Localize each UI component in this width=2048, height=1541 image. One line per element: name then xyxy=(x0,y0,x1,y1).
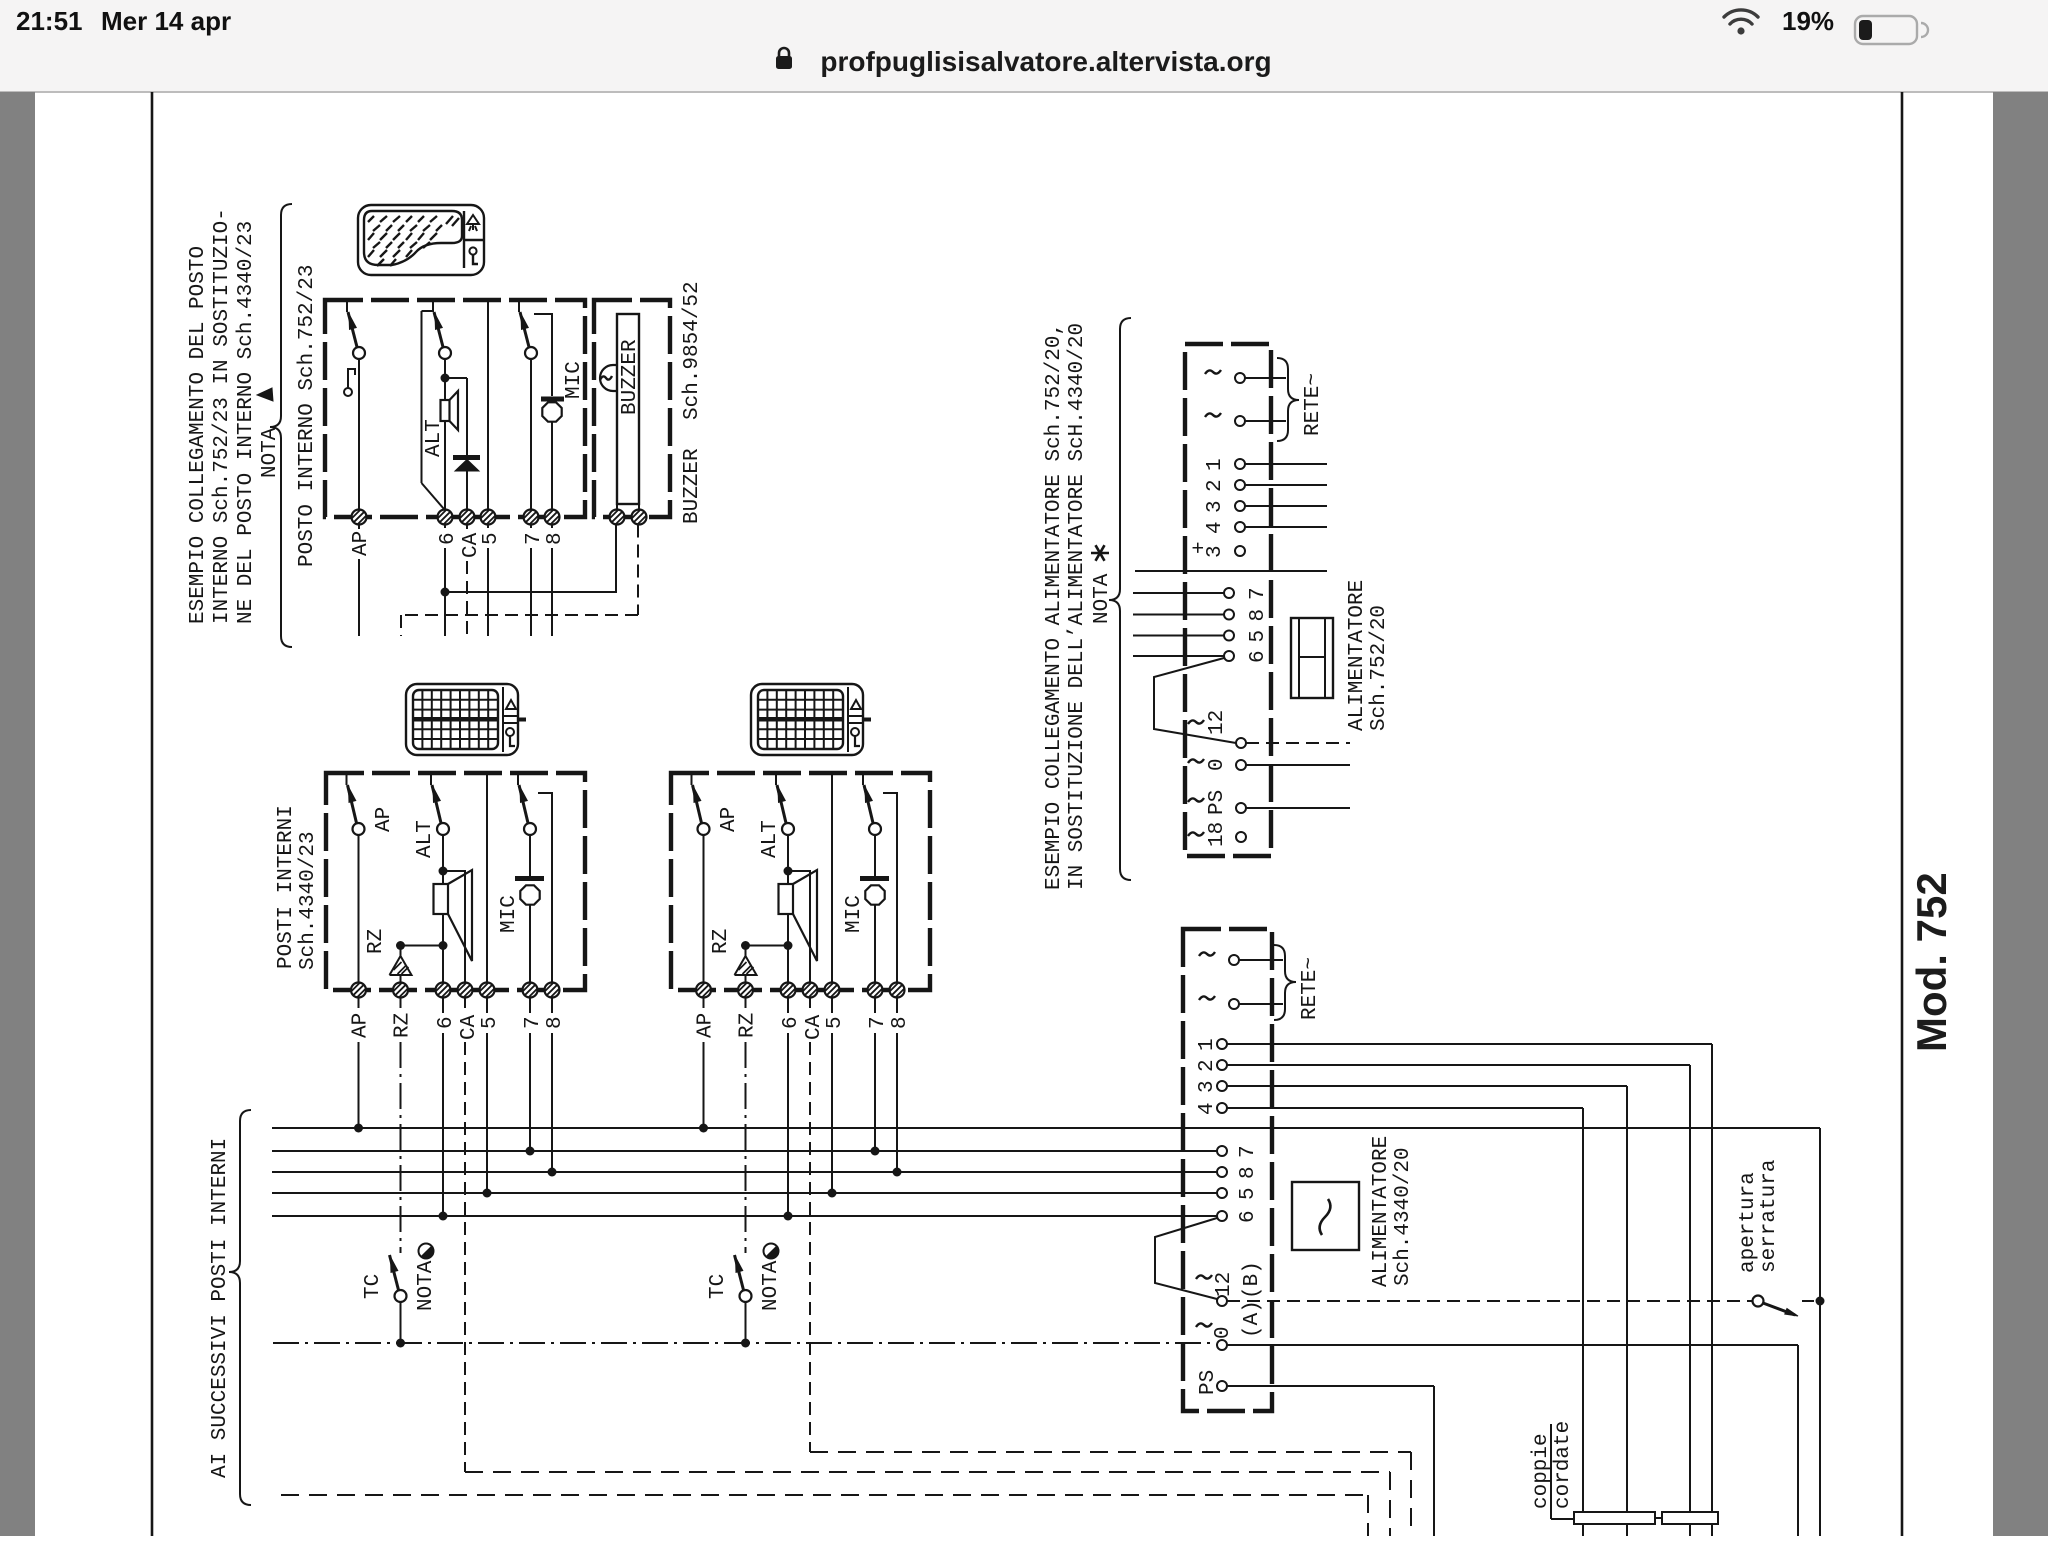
svg-text:MIC: MIC xyxy=(498,895,521,933)
terminal 7 unit 1 xyxy=(523,983,538,998)
svg-text:ALT: ALT xyxy=(759,820,782,858)
svg-text:5: 5 xyxy=(824,1016,847,1029)
svg-text:7: 7 xyxy=(1247,587,1270,600)
svg-text:ALIMENTATORE: ALIMENTATORE xyxy=(1370,1136,1393,1287)
terminal 12 (4340/20) xyxy=(1217,1296,1227,1306)
svg-text:cordate: cordate xyxy=(1552,1421,1575,1509)
dashed box buzzer 9854/52 xyxy=(594,300,670,517)
svg-text:2: 2 xyxy=(1196,1059,1219,1072)
hook switch AP unit 2 xyxy=(691,773,693,785)
pivot wire to terminal 6 xyxy=(422,310,433,312)
svg-text:Sch.9854/52: Sch.9854/52 xyxy=(681,281,704,420)
terminal 5 (4340/20) xyxy=(1217,1188,1227,1198)
terminal 0 (752/20) xyxy=(1236,760,1246,770)
twisted pair symbol 1 xyxy=(1574,1512,1655,1524)
svg-text:8: 8 xyxy=(544,532,567,545)
brace RETE (752/20) xyxy=(1277,358,1299,441)
svg-text:8: 8 xyxy=(1247,609,1270,622)
wire 8 to bus unit 2 xyxy=(896,997,898,1013)
wire speaker-down unit 2 xyxy=(787,914,789,942)
svg-text:serratura: serratura xyxy=(1758,1160,1781,1273)
svg-text:TC: TC xyxy=(707,1274,730,1299)
mic elbow wire xyxy=(534,314,552,396)
wire switch to node xyxy=(444,359,446,375)
svg-text:INTERNO Sch.752/23 IN SOSTITUZ: INTERNO Sch.752/23 IN SOSTITUZIO- xyxy=(211,208,234,624)
riser wire 2 xyxy=(1227,1064,1690,1066)
wire switch-node unit 1 xyxy=(442,835,444,868)
svg-text:5: 5 xyxy=(1247,630,1270,643)
terminal 2 (752/20) xyxy=(1235,480,1245,490)
terminal 7 (posto interno) xyxy=(524,510,539,525)
svg-text:BUZZER: BUZZER xyxy=(619,339,642,415)
svg-text:CA: CA xyxy=(803,1014,826,1040)
terminal RZ unit 1 xyxy=(393,983,408,998)
svg-text:6: 6 xyxy=(435,1016,458,1029)
wire 5 to bus unit 2 xyxy=(831,997,833,1013)
NOTA dot marker unit 1 xyxy=(419,1244,434,1259)
ringer RZ symbol unit 2 xyxy=(735,956,757,975)
wire 8 to bus unit 1 xyxy=(551,997,553,1013)
svg-text:coppie: coppie xyxy=(1530,1433,1553,1509)
svg-text:1: 1 xyxy=(1196,1038,1219,1051)
junction node RZ/6 unit 1 xyxy=(439,941,448,950)
switch TC unit 1 xyxy=(390,1255,399,1290)
svg-text:TC: TC xyxy=(362,1274,385,1299)
svg-text:5: 5 xyxy=(480,532,503,545)
buzzer terminal 2 xyxy=(632,510,647,525)
svg-text:3: 3 xyxy=(1204,545,1227,558)
svg-text:AP: AP xyxy=(695,1013,718,1038)
junction dot TC bus unit 2 xyxy=(741,1339,750,1348)
wire + line (752/20) xyxy=(1135,570,1327,572)
wire CA unit 1 dashed run xyxy=(464,1042,466,1472)
successive CA dashed line xyxy=(281,1494,1368,1496)
svg-text:3: 3 xyxy=(1204,500,1227,513)
dashed box posto interno unit 1 xyxy=(326,773,585,990)
svg-text:ALIMENTATORE: ALIMENTATORE xyxy=(1346,580,1369,731)
wire mic-terminal7 unit 1 xyxy=(529,905,531,983)
jumper 6-12 (752/20) xyxy=(1154,658,1236,743)
wire 8 below xyxy=(551,525,553,529)
diode branch wire xyxy=(445,377,467,379)
jumper 6-12 (4340/20) xyxy=(1155,1218,1217,1299)
svg-text:(A): (A) xyxy=(1241,1300,1264,1338)
twisted pair connector xyxy=(1655,1517,1662,1519)
address bar lock icon xyxy=(776,56,792,69)
svg-text:NOTA: NOTA xyxy=(760,1260,783,1311)
wifi icon xyxy=(1724,10,1758,24)
wire 5 unit 1 xyxy=(486,773,488,983)
hook switch ALT unit 2 xyxy=(775,773,777,785)
terminal 7 unit 2 xyxy=(868,983,883,998)
svg-text:AI SUCCESSIVI POSTI INTERNI: AI SUCCESSIVI POSTI INTERNI xyxy=(209,1138,232,1478)
wire AP unit 1 xyxy=(358,835,360,983)
left gray margin band xyxy=(0,92,35,1536)
wire 7 to bus unit 1 xyxy=(529,997,531,1013)
wire 6 to bus unit 2 xyxy=(787,997,789,1013)
junction node RZ/6 unit 2 xyxy=(784,941,793,950)
terminal CA unit 1 xyxy=(458,983,473,998)
svg-text:19%: 19% xyxy=(1782,6,1834,36)
svg-text:ALT: ALT xyxy=(414,820,437,858)
bus line 6 xyxy=(272,1215,1217,1217)
bus line 7 xyxy=(272,1150,1217,1152)
terminal ~ b (4340/20) xyxy=(1229,999,1239,1009)
svg-text:5: 5 xyxy=(1237,1187,1260,1200)
terminal 8 (posto interno) xyxy=(545,510,560,525)
svg-text:5: 5 xyxy=(479,1016,502,1029)
apertura serratura switch xyxy=(1753,1296,1764,1307)
svg-text:NOTA: NOTA xyxy=(1091,573,1114,624)
terminal 6 unit 1 xyxy=(436,983,451,998)
svg-text:8: 8 xyxy=(1237,1166,1260,1179)
terminal 8 (4340/20) xyxy=(1217,1167,1227,1177)
svg-text:PS: PS xyxy=(1206,790,1229,815)
wire 7 to bus unit 2 xyxy=(874,997,876,1013)
speaker ALT (posto interno) xyxy=(444,378,446,400)
svg-text:18: 18 xyxy=(1206,822,1229,847)
section B brace xyxy=(1109,318,1131,880)
wire CA unit 2 dashed run xyxy=(809,1042,811,1452)
svg-text:Mod. 752: Mod. 752 xyxy=(1908,872,1955,1052)
terminal 6 (752/20) xyxy=(1224,651,1234,661)
switch TC unit 2 xyxy=(735,1255,744,1290)
svg-text:POSTI INTERNI: POSTI INTERNI xyxy=(275,805,298,969)
svg-text:NE DEL POSTO INTERNO Sch.4340/: NE DEL POSTO INTERNO Sch.4340/23 xyxy=(235,221,258,624)
junction node 6/CA unit 1 xyxy=(439,867,448,876)
terminal 8 (752/20) xyxy=(1224,610,1234,620)
wire CA dashed unit 2 xyxy=(809,997,811,1008)
buzzer dashed return wire xyxy=(637,525,639,616)
wire switch to terminal 7 xyxy=(530,359,532,510)
terminal 0 (4340/20) xyxy=(1217,1340,1227,1350)
terminal AP unit 1 xyxy=(351,983,366,998)
svg-text:POSTO INTERNO Sch.752/23: POSTO INTERNO Sch.752/23 xyxy=(296,265,319,567)
terminal ~ a (752/20) xyxy=(1235,373,1245,383)
terminal 18 (752/20) xyxy=(1236,832,1246,842)
wire 5 below xyxy=(487,525,489,529)
twisted pair symbol 2 xyxy=(1662,1512,1718,1524)
section A brace xyxy=(270,204,292,647)
svg-text:RZ: RZ xyxy=(710,929,733,954)
hook switch MIC unit 2 xyxy=(862,773,864,785)
wire 5 to bus unit 1 xyxy=(486,997,488,1013)
riser wire 1 xyxy=(1227,1043,1712,1045)
svg-text:PS: PS xyxy=(1197,1370,1220,1395)
svg-text:AP: AP xyxy=(350,1013,373,1038)
terminal 6 unit 2 xyxy=(781,983,796,998)
terminal 5 (posto interno) xyxy=(481,510,496,525)
wire speaker-down unit 1 xyxy=(442,914,444,942)
svg-text:6: 6 xyxy=(1237,1210,1260,1223)
junction dot serratura xyxy=(1816,1297,1825,1306)
diode (posto interno) xyxy=(453,455,480,460)
wire 0 riser xyxy=(1227,1344,1798,1346)
svg-text:7: 7 xyxy=(523,532,546,545)
dashed box posto interno unit 2 xyxy=(671,773,930,990)
svg-text:Sch.4340/23: Sch.4340/23 xyxy=(297,831,320,970)
dashed box posto interno 752/23 xyxy=(325,300,585,517)
terminal 5 (752/20) xyxy=(1224,631,1234,641)
svg-text:7: 7 xyxy=(1237,1145,1260,1158)
alimentatore 4340/20 component xyxy=(1292,1182,1359,1250)
terminal ~ b (752/20) xyxy=(1235,416,1245,426)
status bar background xyxy=(0,0,2048,92)
terminal CA unit 2 xyxy=(803,983,818,998)
brace AI SUCCESSIVI xyxy=(229,1110,251,1505)
svg-text:RZ: RZ xyxy=(392,1013,415,1038)
hook switch AP unit 1 xyxy=(346,773,348,785)
wire CA branch unit 1 xyxy=(443,871,465,983)
wire AP to bus unit 2 xyxy=(703,997,705,1008)
wire AP switch to terminal xyxy=(358,359,360,510)
key-call symbol xyxy=(347,368,349,388)
terminal 5 unit 2 xyxy=(825,983,840,998)
hook switch AP (posto interno) xyxy=(346,300,348,312)
svg-text:Mer 14 apr: Mer 14 apr xyxy=(101,6,231,36)
svg-text:7: 7 xyxy=(522,1016,545,1029)
speaker ALT unit 2 xyxy=(787,871,789,884)
terminal 4 (4340/20) xyxy=(1217,1103,1227,1113)
ringer RZ wire unit 1 xyxy=(401,945,444,947)
terminal 6 (4340/20) xyxy=(1217,1211,1227,1221)
brace RETE (4340/20) xyxy=(1274,945,1296,1020)
svg-text:(B): (B) xyxy=(1241,1261,1264,1299)
handset icon key cell xyxy=(469,247,476,254)
svg-text:AP: AP xyxy=(373,807,396,832)
svg-text:2: 2 xyxy=(1204,479,1227,492)
svg-text:RETE~: RETE~ xyxy=(1302,373,1325,436)
svg-text:ESEMPIO COLLEGAMENTO ALIMENTAT: ESEMPIO COLLEGAMENTO ALIMENTATORE Sch.75… xyxy=(1043,323,1066,890)
terminal AP unit 2 xyxy=(696,983,711,998)
riser wire 3 xyxy=(1227,1085,1627,1087)
wire AP unit 2 xyxy=(703,835,705,983)
wire 7 below xyxy=(530,525,532,529)
terminal 12 (752/20) xyxy=(1236,738,1246,748)
wire RZ dash-dot to TC unit 2 xyxy=(745,997,747,1008)
handset icon posto interno unit 1 xyxy=(406,684,518,755)
terminal 8 unit 1 xyxy=(545,983,560,998)
wire 6 to bus unit 1 xyxy=(442,997,444,1013)
buzzer return wire solid xyxy=(445,524,616,592)
bus line TC dash-dot xyxy=(273,1342,1216,1344)
svg-text:AP: AP xyxy=(350,531,373,556)
svg-text:apertura: apertura xyxy=(1737,1172,1760,1273)
wire switch-node unit 2 xyxy=(787,835,789,868)
svg-text:6: 6 xyxy=(1247,650,1270,663)
wire RZ dash-dot to TC unit 1 xyxy=(400,997,402,1008)
svg-text:IN SOSTITUZIONE DELL’ALIMENTAT: IN SOSTITUZIONE DELL’ALIMENTATORE ScH.43… xyxy=(1066,323,1089,890)
handset icon posto interno 752/23 xyxy=(358,205,484,275)
wire 5 (posto interno) xyxy=(487,300,489,510)
terminal 3 (4340/20) xyxy=(1217,1081,1227,1091)
svg-text:4: 4 xyxy=(1196,1102,1219,1115)
schematic sheet left frame line xyxy=(151,92,154,1536)
svg-text:BUZZER: BUZZER xyxy=(681,448,704,524)
wire 8 unit 2 xyxy=(883,793,897,983)
svg-text:ALT: ALT xyxy=(423,419,446,457)
svg-text:ESEMPIO COLLEGAMENTO DEL POSTO: ESEMPIO COLLEGAMENTO DEL POSTO xyxy=(187,246,210,624)
handset icon posto interno unit 2 xyxy=(751,684,863,755)
hook switch MIC unit 1 xyxy=(517,773,519,785)
alimentatore 752/20 component xyxy=(1291,618,1333,698)
junction dot buzzer return xyxy=(441,588,450,597)
wire CA branch unit 2 xyxy=(788,871,810,983)
wire mic-terminal7 unit 2 xyxy=(874,905,876,983)
svg-text:CA: CA xyxy=(458,1014,481,1040)
terminal 3 (752/20) xyxy=(1235,501,1245,511)
junction node ALT xyxy=(441,374,450,383)
wire AP to bus unit 1 xyxy=(358,997,360,1008)
wire 5 unit 2 xyxy=(831,773,833,983)
wire speaker to terminal 6 xyxy=(444,421,446,510)
junction dot TC bus unit 1 xyxy=(396,1339,405,1348)
NOTA dot marker unit 2 xyxy=(764,1244,779,1259)
hook switch ALT unit 1 xyxy=(430,773,432,785)
schematic sheet right frame line xyxy=(1901,92,1904,1536)
buzzer terminal 1 xyxy=(610,510,625,525)
NOTA triangle marker xyxy=(257,388,273,401)
buzzer component xyxy=(617,314,639,504)
NOTA asterisk marker xyxy=(1091,545,1109,561)
svg-text:6: 6 xyxy=(780,1016,803,1029)
terminal 8 unit 2 xyxy=(890,983,905,998)
terminal 7 (752/20) xyxy=(1224,588,1234,598)
wire mic to terminal 8 xyxy=(551,422,553,510)
wire switch-mic unit 1 xyxy=(529,835,531,876)
hook switch ALT (posto interno) xyxy=(432,300,434,312)
terminal CA (posto interno) xyxy=(460,510,475,525)
svg-text:12: 12 xyxy=(1213,1272,1236,1297)
terminal 4 (752/20) xyxy=(1235,522,1245,532)
svg-text:12: 12 xyxy=(1206,710,1229,735)
dashed box alimentatore 4340/20 terminals xyxy=(1183,929,1272,1411)
svg-text:3: 3 xyxy=(1196,1080,1219,1093)
ringer RZ wire unit 2 xyxy=(746,945,789,947)
riser wire 4 xyxy=(1227,1107,1583,1109)
dashed box alimentatore 752/20 terminals xyxy=(1185,344,1271,856)
terminal 5 unit 1 xyxy=(480,983,495,998)
svg-text:6: 6 xyxy=(437,532,460,545)
bus line AP xyxy=(272,1127,1820,1129)
terminal AP (posto interno) xyxy=(352,510,367,525)
wire 8 unit 1 xyxy=(538,793,552,983)
speaker ALT unit 1 xyxy=(442,871,444,884)
svg-text:0: 0 xyxy=(1212,1326,1235,1339)
bus line 8 xyxy=(272,1171,1217,1173)
svg-text:RETE~: RETE~ xyxy=(1299,957,1322,1020)
svg-text:8: 8 xyxy=(544,1016,567,1029)
wire CA below dashed xyxy=(466,525,468,530)
handset icon arrow cell xyxy=(467,215,479,231)
wire PS riser xyxy=(1227,1385,1434,1387)
wire 6 below xyxy=(444,525,446,529)
svg-text:RZ: RZ xyxy=(737,1013,760,1038)
wire AP riser down xyxy=(1819,1128,1821,1536)
svg-text:21:51: 21:51 xyxy=(16,6,83,36)
svg-text:RZ: RZ xyxy=(365,929,388,954)
bus line 5 xyxy=(272,1192,1217,1194)
svg-text:8: 8 xyxy=(889,1016,912,1029)
svg-text:Sch.4340/20: Sch.4340/20 xyxy=(1392,1147,1415,1286)
svg-text:NOTA: NOTA xyxy=(415,1260,438,1311)
terminal +3 (752/20) xyxy=(1235,546,1245,556)
ringer RZ symbol unit 1 xyxy=(390,956,412,975)
svg-text:profpuglisisalvatore.altervist: profpuglisisalvatore.altervista.org xyxy=(820,46,1271,77)
terminal 1 (4340/20) xyxy=(1217,1039,1227,1049)
terminal 2 (4340/20) xyxy=(1217,1060,1227,1070)
terminal 6 (posto interno) xyxy=(438,510,453,525)
svg-text:4: 4 xyxy=(1204,521,1227,534)
svg-text:1: 1 xyxy=(1204,458,1227,471)
terminal PS (752/20) xyxy=(1236,803,1246,813)
svg-text:0: 0 xyxy=(1206,758,1229,771)
terminal 1 (752/20) xyxy=(1235,459,1245,469)
junction node 6/CA unit 2 xyxy=(784,867,793,876)
buzzer wires to terminals xyxy=(616,504,618,510)
terminal RZ unit 2 xyxy=(738,983,753,998)
svg-text:Sch.752/20: Sch.752/20 xyxy=(1368,605,1391,731)
terminal ~ a (4340/20) xyxy=(1229,955,1239,965)
svg-text:NOTA: NOTA xyxy=(259,427,282,478)
right gray margin band xyxy=(1993,92,2048,1536)
wire switch-mic unit 2 xyxy=(874,835,876,876)
battery icon xyxy=(1855,16,1917,44)
svg-text:MIC: MIC xyxy=(843,895,866,933)
wire CA dashed unit 1 xyxy=(464,997,466,1008)
microphone MIC unit 2 xyxy=(860,876,889,881)
microphone MIC (posto interno) xyxy=(541,397,564,402)
svg-text:7: 7 xyxy=(867,1016,890,1029)
svg-text:MIC: MIC xyxy=(563,361,586,399)
wire AP below xyxy=(358,525,360,530)
svg-text:AP: AP xyxy=(718,807,741,832)
apertura serratura dashed wire xyxy=(1227,1300,1752,1302)
hook switch MIC (posto interno) xyxy=(518,300,520,312)
microphone MIC unit 1 xyxy=(515,876,544,881)
terminal PS (4340/20) xyxy=(1217,1381,1227,1391)
terminal 7 (4340/20) xyxy=(1217,1146,1227,1156)
